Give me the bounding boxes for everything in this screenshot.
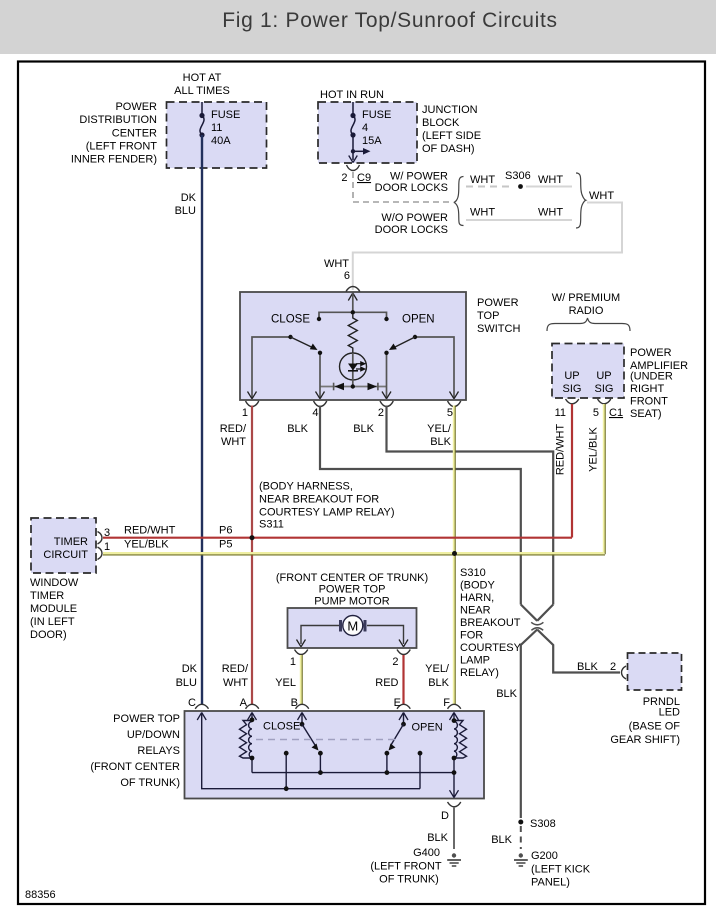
svg-text:BLU: BLU (175, 205, 196, 217)
pin B to close armature pivot (301, 713, 303, 725)
motor M symbol (339, 620, 342, 632)
svg-text:RELAY): RELAY) (460, 667, 499, 679)
svg-text:CLOSE: CLOSE (271, 314, 310, 326)
wire BLK pair converging to inline connector (521, 605, 553, 621)
open relay armature (391, 724, 404, 745)
title bar (0, 0, 716, 54)
svg-text:W/O POWER: W/O POWER (381, 212, 448, 224)
svg-text:HOT IN RUN: HOT IN RUN (320, 89, 384, 101)
open wiper arm (394, 337, 416, 348)
svg-text:(LEFT FRONT: (LEFT FRONT (86, 141, 158, 153)
svg-text:(FRONT CENTER: (FRONT CENTER (90, 761, 180, 773)
svg-text:YEL/: YEL/ (425, 663, 450, 675)
svg-text:D: D (441, 810, 449, 822)
svg-text:UP/DOWN: UP/DOWN (127, 729, 180, 741)
svg-text:POWER TOP: POWER TOP (113, 713, 180, 725)
connector arc at PRNDL LED (622, 666, 627, 679)
wire YEL/BLK from amp pin 5 down (604, 404, 605, 554)
splice S310 (dot) (452, 551, 457, 556)
svg-text:POWER: POWER (115, 101, 157, 113)
svg-text:C9: C9 (357, 172, 371, 184)
svg-text:MODULE: MODULE (30, 603, 77, 615)
common rail (252, 772, 454, 774)
diode right (pointing right) (368, 383, 378, 391)
power top switch box (240, 292, 466, 400)
svg-text:CLOSE: CLOSE (263, 721, 300, 733)
svg-text:BLU: BLU (176, 677, 197, 689)
svg-text:WHT: WHT (470, 207, 495, 219)
connector arcs below pump motor (295, 650, 308, 655)
close fixed contact drop (285, 753, 287, 789)
arrow to other circuits (363, 148, 371, 155)
svg-text:BLK: BLK (577, 661, 598, 673)
svg-text:BLK: BLK (428, 677, 449, 689)
wire BLK diverging to PRNDL LED (537, 630, 620, 673)
svg-text:OF TRUNK): OF TRUNK) (379, 874, 439, 886)
svg-text:COURTESY: COURTESY (460, 642, 522, 654)
wire BLK diverging to S308 (521, 630, 537, 819)
svg-text:YEL/BLK: YEL/BLK (588, 427, 600, 472)
close relay coil (240, 721, 253, 759)
svg-text:RED/WHT: RED/WHT (555, 424, 567, 476)
wire BLK from switch pin 2 (387, 406, 554, 605)
svg-text:C1: C1 (609, 407, 623, 419)
svg-text:RED/: RED/ (220, 423, 247, 435)
svg-text:(FRONT CENTER OF TRUNK): (FRONT CENTER OF TRUNK) (276, 572, 428, 584)
svg-text:DK: DK (182, 663, 198, 675)
svg-text:G400: G400 (413, 847, 440, 859)
svg-text:PANEL): PANEL) (531, 877, 570, 889)
relay junction dots (250, 717, 255, 722)
brace left joining both options (454, 177, 464, 226)
wire YEL/BLK from switch pin 5 (454, 406, 455, 705)
svg-text:WHT: WHT (538, 174, 563, 186)
svg-text:YEL/: YEL/ (427, 423, 452, 435)
svg-text:BLK: BLK (491, 834, 512, 846)
svg-text:15A: 15A (362, 135, 382, 147)
svg-text:RED/WHT: RED/WHT (124, 525, 176, 537)
switch internal: common rail (319, 312, 387, 318)
svg-text:RELAYS: RELAYS (137, 745, 180, 757)
splice S308 (dot) (518, 820, 523, 825)
LED emission arrows (356, 362, 365, 366)
svg-text:CIRCUIT: CIRCUIT (43, 549, 88, 561)
wire C9 dashed down and right (353, 172, 451, 202)
relay pin entry arrows (197, 713, 458, 721)
svg-text:DOOR LOCKS: DOOR LOCKS (375, 224, 448, 236)
switch internal: pin 6 entry arrow (348, 293, 357, 301)
node: left fixed contact of rail (317, 317, 321, 321)
open fixed contact drop (419, 753, 421, 789)
pin 1 internal conductor with close wiper (252, 337, 291, 399)
svg-text:BLK: BLK (353, 423, 374, 435)
svg-text:1: 1 (290, 656, 296, 668)
svg-text:P6: P6 (219, 525, 232, 537)
connector arc pin 6 (346, 287, 360, 292)
svg-text:BLK: BLK (427, 832, 448, 844)
ground G400 (447, 853, 461, 866)
wire RED pump pin 2 to relay pin E (402, 655, 404, 704)
svg-text:POWER: POWER (477, 297, 519, 309)
node: bottom rail center (351, 384, 355, 388)
connector arc timer pin 3 (98, 532, 103, 545)
LED triangle and bar (348, 364, 358, 371)
pin D exit arrow (450, 790, 459, 797)
wire WHT solid right of S306 (526, 186, 572, 188)
LED indicator circle (340, 353, 367, 380)
svg-text:WHT: WHT (223, 677, 248, 689)
svg-text:S311: S311 (259, 519, 284, 531)
open coil bottom through rail to pin D (453, 758, 455, 797)
svg-text:G200: G200 (531, 850, 558, 862)
svg-text:TOP: TOP (477, 310, 499, 322)
wire RED/WHT from switch pin 1 to relay pin A (251, 406, 253, 705)
svg-text:40A: 40A (211, 135, 231, 147)
svg-text:ALL TIMES: ALL TIMES (174, 85, 230, 97)
svg-text:2: 2 (392, 656, 398, 668)
svg-text:YEL/BLK: YEL/BLK (124, 539, 169, 551)
svg-text:WHT: WHT (221, 436, 246, 448)
svg-text:FOR: FOR (460, 630, 483, 642)
svg-text:1: 1 (242, 407, 248, 419)
wire YEL pump pin 1 to relay pin B (301, 655, 302, 704)
close wiper arm (291, 337, 314, 348)
switch bottom rail with diodes (320, 386, 387, 388)
svg-text:GEAR SHIFT): GEAR SHIFT) (610, 734, 680, 746)
svg-text:INNER FENDER): INNER FENDER) (71, 154, 157, 166)
svg-text:2: 2 (341, 172, 347, 184)
brace right joining both options (576, 173, 586, 228)
wire WHT solid (w/o power door locks) (466, 219, 572, 221)
svg-text:PUMP MOTOR: PUMP MOTOR (314, 596, 389, 608)
connector arcs below switch (246, 401, 259, 407)
pin A to close coil top (251, 713, 253, 720)
svg-text:F: F (443, 697, 450, 709)
splice S306 (518, 184, 523, 189)
close coil bottom to common rail (251, 758, 253, 773)
svg-text:WHT: WHT (470, 174, 495, 186)
wire WHT to power top switch pin 6 (353, 203, 622, 291)
power amplifier box (552, 344, 624, 399)
connector arcs below amplifier (566, 399, 579, 404)
pin C rail to fixed contacts (202, 713, 420, 789)
svg-text:COURTESY LAMP RELAY): COURTESY LAMP RELAY) (259, 507, 395, 519)
svg-text:W/ PREMIUM: W/ PREMIUM (552, 292, 620, 304)
svg-text:4: 4 (362, 122, 368, 134)
fuse F4 15A symbol (351, 102, 365, 160)
svg-text:OPEN: OPEN (402, 314, 435, 326)
svg-text:RED: RED (375, 677, 398, 689)
svg-text:S308: S308 (530, 818, 556, 830)
wire RED/WHT from amp pin 11 down to splice run (571, 404, 573, 538)
svg-text:2: 2 (378, 407, 384, 419)
svg-text:FUSE: FUSE (211, 109, 240, 121)
brace W/ PREMIUM RADIO (547, 318, 630, 331)
motor internal conductors (301, 626, 404, 645)
relay linkage dashed line (256, 739, 397, 741)
svg-text:4: 4 (312, 407, 318, 419)
svg-text:FRONT: FRONT (630, 396, 668, 408)
svg-text:11: 11 (555, 407, 566, 419)
connector arc below pin D (448, 802, 461, 807)
svg-text:5: 5 (593, 407, 599, 419)
wire BLK pin D to G400 (453, 807, 455, 849)
svg-text:(UNDER: (UNDER (630, 371, 673, 383)
fuse F11 40A symbol (200, 102, 204, 135)
pin 4 internal conductor (319, 353, 321, 399)
svg-text:POWER: POWER (630, 347, 672, 359)
svg-text:POWER TOP: POWER TOP (319, 584, 386, 596)
power distribution center box (167, 102, 267, 168)
svg-text:(BODY: (BODY (460, 580, 496, 592)
svg-text:SWITCH: SWITCH (477, 323, 520, 335)
svg-text:6: 6 (344, 270, 350, 282)
svg-text:1: 1 (104, 541, 110, 553)
svg-text:JUNCTION: JUNCTION (422, 104, 478, 116)
title text (0, 9, 716, 33)
svg-text:S306: S306 (505, 170, 531, 182)
PRNDL LED box (628, 653, 682, 690)
svg-text:SIG: SIG (595, 383, 614, 395)
splice S311 (dot) (250, 535, 255, 540)
svg-text:RIGHT: RIGHT (630, 383, 665, 395)
svg-text:YEL: YEL (275, 677, 296, 689)
svg-text:DOOR LOCKS: DOOR LOCKS (375, 182, 448, 194)
wire BLK from switch pin 4 (320, 406, 521, 605)
svg-text:2: 2 (610, 661, 616, 673)
svg-text:DOOR): DOOR) (30, 629, 67, 641)
close armature throw vertical (319, 753, 321, 772)
wire RED/WHT from timer pin 3 to amp pin 11 riser (103, 537, 572, 539)
svg-text:UP: UP (596, 370, 611, 382)
svg-text:OPEN: OPEN (412, 722, 443, 734)
svg-text:WINDOW: WINDOW (30, 577, 79, 589)
svg-text:(IN LEFT: (IN LEFT (30, 616, 75, 628)
svg-text:SIG: SIG (563, 383, 582, 395)
svg-text:RADIO: RADIO (569, 305, 604, 317)
svg-text:(BODY HARNESS,: (BODY HARNESS, (259, 481, 353, 493)
svg-text:UP: UP (564, 370, 579, 382)
svg-text:TIMER: TIMER (30, 590, 64, 602)
inline connector upper arc (531, 622, 543, 625)
close relay armature (302, 724, 315, 745)
svg-text:OF DASH): OF DASH) (422, 143, 475, 155)
motor pin arrows (297, 640, 306, 647)
svg-text:BLK: BLK (430, 436, 451, 448)
svg-text:(LEFT KICK: (LEFT KICK (531, 864, 591, 876)
svg-text:A: A (240, 697, 248, 709)
svg-text:DK: DK (181, 192, 197, 204)
svg-text:NEAR: NEAR (460, 605, 491, 617)
svg-text:BLK: BLK (496, 688, 517, 700)
relay internal conductors (202, 713, 454, 797)
svg-text:SEAT): SEAT) (630, 408, 662, 420)
pin arrows at switch bottom (248, 392, 257, 399)
svg-text:WHT: WHT (324, 258, 349, 270)
pin 2 internal conductor (386, 353, 388, 399)
junction block box (318, 102, 417, 163)
svg-text:(BASE OF: (BASE OF (629, 721, 681, 733)
svg-text:HARN,: HARN, (460, 592, 494, 604)
wire YEL/BLK from timer pin 1 to amp pin 5 riser (103, 553, 605, 555)
svg-text:P5: P5 (219, 539, 232, 551)
pin F to open coil top (453, 713, 455, 721)
svg-text:5: 5 (447, 407, 453, 419)
svg-text:BLK: BLK (287, 423, 308, 435)
resistor in switch (illumination dropping resistor) (348, 314, 357, 353)
svg-text:(LEFT SIDE: (LEFT SIDE (422, 130, 481, 142)
node: rail center (351, 310, 355, 314)
svg-text:WHT: WHT (538, 207, 563, 219)
svg-text:RED/: RED/ (222, 663, 249, 675)
svg-text:FUSE: FUSE (362, 109, 391, 121)
pin arrow into connector C9 (349, 156, 358, 163)
power top pump motor box (288, 608, 417, 648)
svg-text:11: 11 (211, 122, 222, 134)
svg-text:HOT AT: HOT AT (183, 72, 222, 84)
timer circuit box (31, 518, 96, 573)
svg-text:S310: S310 (460, 567, 486, 579)
wire DK BLU from fuse 11 to relay pin C (201, 135, 203, 704)
connector arc timer pin 1 (98, 547, 103, 560)
wire BLK dashed S308 to G200 (520, 826, 522, 849)
svg-text:OF TRUNK): OF TRUNK) (120, 777, 180, 789)
svg-text:B: B (291, 697, 298, 709)
svg-text:M: M (347, 619, 358, 634)
node: right fixed contact of rail (384, 317, 388, 321)
open armature throw vertical (386, 753, 388, 772)
svg-text:E: E (394, 697, 401, 709)
pin 5 internal conductor with open wiper (415, 337, 454, 399)
wire WHT dashed (with power door locks) (466, 186, 514, 188)
svg-text:(LEFT FRONT: (LEFT FRONT (370, 861, 442, 873)
connector arc C9 (347, 165, 360, 171)
svg-text:WHT: WHT (589, 190, 614, 202)
svg-text:LAMP: LAMP (460, 655, 490, 667)
svg-text:TIMER: TIMER (54, 536, 88, 548)
diode left (pointing left) (335, 383, 345, 391)
open relay coil (454, 721, 467, 759)
svg-text:CENTER: CENTER (112, 128, 157, 140)
svg-text:BREAKOUT: BREAKOUT (460, 617, 521, 629)
svg-text:NEAR BREAKOUT FOR: NEAR BREAKOUT FOR (259, 494, 379, 506)
svg-text:LED: LED (659, 707, 680, 719)
ground G200 (514, 853, 528, 866)
svg-text:DISTRIBUTION: DISTRIBUTION (79, 114, 157, 126)
svg-text:BLOCK: BLOCK (422, 117, 460, 129)
inline connector lower arc (531, 628, 543, 631)
power top up/down relays box (185, 711, 485, 799)
connector arcs above relay (195, 704, 208, 709)
svg-text:C: C (188, 697, 196, 709)
svg-text:88356: 88356 (25, 889, 56, 901)
svg-text:W/ POWER: W/ POWER (390, 171, 448, 183)
pin E to open armature pivot (403, 713, 405, 725)
